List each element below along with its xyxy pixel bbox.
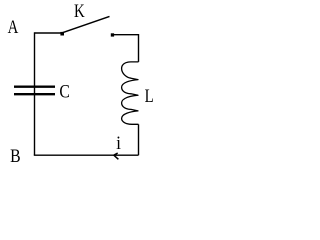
svg-text:C: C	[59, 81, 69, 101]
wire inductor bottom to bottom wire	[138, 124, 140, 155]
inductor L coil	[122, 62, 139, 124]
switch K contact junction dot	[111, 33, 114, 36]
svg-text:A: A	[8, 16, 19, 37]
svg-text:L: L	[145, 85, 154, 106]
switch K pivot junction dot	[60, 32, 64, 36]
wire left vertical A-B (through capacitor C)	[34, 32, 36, 155]
switch K lever	[63, 16, 110, 32]
current arrow i (on bottom wire, pointing left)	[114, 153, 119, 159]
capacitor C top plate	[14, 86, 55, 88]
wire A to switch pivot (top-left horizontal)	[35, 32, 62, 34]
wire bottom B to inductor branch	[34, 154, 139, 156]
svg-text:B: B	[10, 146, 20, 166]
capacitor C bottom plate	[14, 93, 55, 95]
wire switch contact to top-right corner and down to inductor	[113, 35, 139, 62]
svg-text:K: K	[74, 1, 85, 22]
svg-text:i: i	[116, 133, 121, 154]
